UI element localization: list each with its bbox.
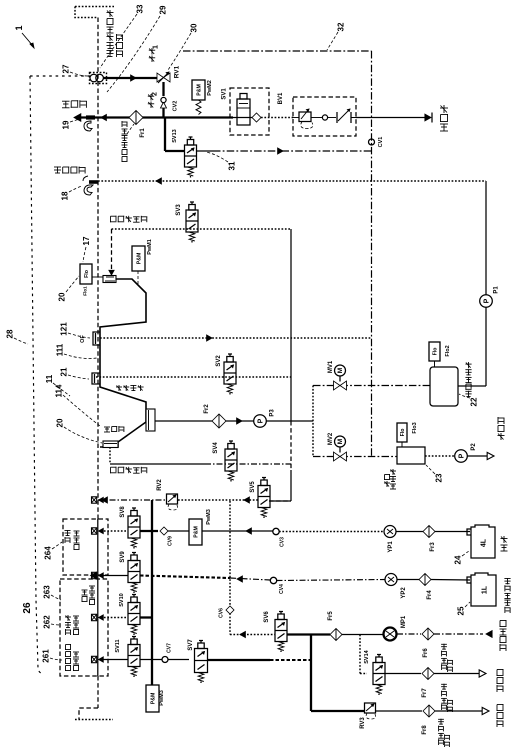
svg-text:SV4: SV4 <box>213 442 219 454</box>
svg-text:Fr7: Fr7 <box>422 688 428 698</box>
svg-text:P: P <box>458 453 465 458</box>
svg-text:264: 264 <box>44 546 53 560</box>
svg-text:P3: P3 <box>270 409 276 417</box>
svg-text:M: M <box>337 439 344 444</box>
svg-text:23: 23 <box>435 473 444 482</box>
svg-text:BV1: BV1 <box>278 92 284 104</box>
svg-text:RV2: RV2 <box>157 479 163 491</box>
svg-text:32: 32 <box>337 22 346 31</box>
svg-text:SV6: SV6 <box>264 611 270 623</box>
svg-text:RV3: RV3 <box>360 717 366 729</box>
svg-text:28: 28 <box>6 329 15 338</box>
svg-text:262: 262 <box>43 615 52 629</box>
svg-text:CV7: CV7 <box>167 643 173 653</box>
svg-text:25: 25 <box>457 606 466 615</box>
svg-text:MV2: MV2 <box>328 432 334 445</box>
svg-text:Fr3: Fr3 <box>430 542 436 552</box>
svg-text:2: 2 <box>151 92 158 96</box>
svg-text:CV9: CV9 <box>168 536 174 546</box>
svg-text:SV9: SV9 <box>120 551 126 563</box>
svg-text:263: 263 <box>43 585 52 599</box>
svg-text:P&M: P&M <box>136 253 142 265</box>
svg-text:261: 261 <box>42 649 51 663</box>
svg-text:PwM1: PwM1 <box>147 239 153 255</box>
svg-text:SV5: SV5 <box>250 481 256 493</box>
svg-text:Fr6: Fr6 <box>423 648 429 658</box>
svg-text:OF: OF <box>80 335 86 343</box>
svg-text:4L: 4L <box>480 538 487 547</box>
svg-text:11: 11 <box>45 374 54 383</box>
svg-text:31: 31 <box>228 161 237 170</box>
svg-text:RV1: RV1 <box>174 65 181 78</box>
svg-text:111: 111 <box>56 343 65 356</box>
svg-text:M: M <box>337 368 344 373</box>
svg-text:SV2: SV2 <box>216 355 222 367</box>
svg-text:27: 27 <box>62 64 71 73</box>
svg-text:CV4: CV4 <box>279 584 285 594</box>
svg-text:SV11: SV11 <box>115 639 121 652</box>
svg-text:Flo: Flo <box>400 429 406 437</box>
svg-text:Fr4: Fr4 <box>427 590 433 600</box>
svg-text:21: 21 <box>60 367 69 376</box>
svg-text:SV3: SV3 <box>176 204 182 216</box>
svg-text:MP1: MP1 <box>401 615 407 628</box>
svg-text:P&M: P&M <box>193 526 199 538</box>
svg-text:P&M: P&M <box>150 693 156 705</box>
svg-text:18: 18 <box>61 191 70 200</box>
svg-text:114: 114 <box>55 384 64 397</box>
svg-text:SV8: SV8 <box>120 506 126 518</box>
svg-text:1L: 1L <box>481 585 488 594</box>
svg-text:P1: P1 <box>494 286 500 294</box>
svg-text:Fr8: Fr8 <box>422 725 428 735</box>
svg-text:CV2: CV2 <box>172 101 178 112</box>
svg-text:SV7: SV7 <box>188 639 194 651</box>
svg-text:Flo3: Flo3 <box>412 422 418 433</box>
svg-text:P: P <box>257 418 264 423</box>
svg-text:20: 20 <box>58 292 67 301</box>
svg-text:SV14: SV14 <box>364 649 370 663</box>
svg-text:Flo2: Flo2 <box>445 345 451 356</box>
svg-text:Fr2: Fr2 <box>204 404 210 414</box>
svg-text:22: 22 <box>470 397 479 406</box>
svg-text:24: 24 <box>454 555 463 564</box>
svg-text:Flo: Flo <box>84 270 90 278</box>
svg-text:Flo: Flo <box>432 348 438 356</box>
svg-text:19: 19 <box>62 120 71 129</box>
svg-text:CV1: CV1 <box>378 137 384 148</box>
svg-text:121: 121 <box>60 322 69 336</box>
svg-text:PwM3: PwM3 <box>206 509 212 525</box>
svg-text:Flo1: Flo1 <box>83 286 88 296</box>
svg-text:YP2: YP2 <box>401 587 407 599</box>
svg-text:SV13: SV13 <box>172 129 178 142</box>
svg-text:1: 1 <box>14 25 24 30</box>
svg-text:CV6: CV6 <box>219 608 225 618</box>
svg-text:PwM2: PwM2 <box>207 80 213 96</box>
svg-text:1: 1 <box>152 45 159 49</box>
svg-text:20: 20 <box>56 418 65 427</box>
svg-text:17: 17 <box>82 236 91 245</box>
svg-text:P: P <box>483 298 490 303</box>
svg-text:MV1: MV1 <box>328 360 334 373</box>
svg-text:Fr5: Fr5 <box>328 611 334 621</box>
svg-text:30: 30 <box>190 23 199 32</box>
svg-text:YP1: YP1 <box>388 541 394 553</box>
svg-text:29: 29 <box>159 5 168 14</box>
svg-text:P2: P2 <box>471 443 477 451</box>
svg-text:CV3: CV3 <box>280 537 286 547</box>
svg-text:SV1: SV1 <box>222 88 228 100</box>
svg-text:33: 33 <box>136 4 145 13</box>
svg-text:SV10: SV10 <box>119 593 125 606</box>
svg-text:PwM3: PwM3 <box>159 690 165 706</box>
svg-text:P&M: P&M <box>196 84 202 96</box>
svg-text:Fr1: Fr1 <box>140 128 146 138</box>
svg-text:26: 26 <box>22 602 33 614</box>
